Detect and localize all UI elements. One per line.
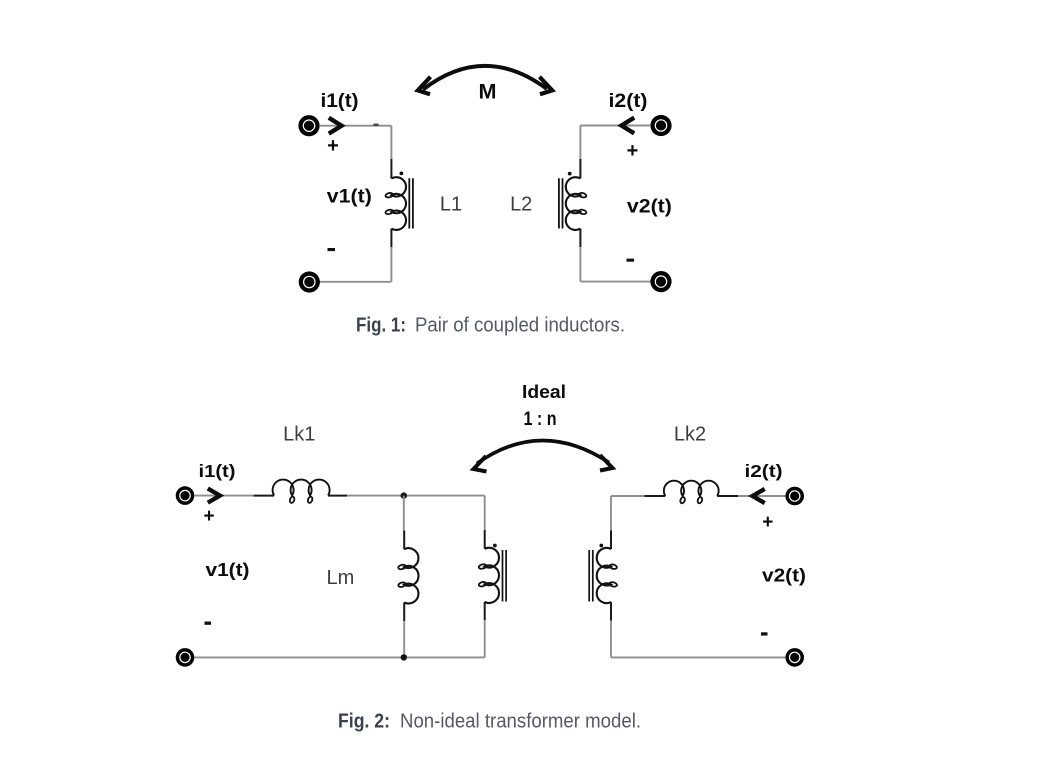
svg-text:M: M: [479, 81, 497, 104]
minus sign v2 fig2: [761, 632, 768, 635]
terminal port P7 (fig2 top-right): [785, 487, 804, 506]
inductor L2 core lines: [559, 178, 563, 228]
wire fig2 top-right: [738, 495, 785, 497]
minus sign v2: [627, 259, 635, 262]
svg-text:L2: L2: [510, 194, 532, 216]
current arrow i2: [621, 118, 634, 134]
inductor L2 coil: [566, 177, 581, 230]
wire Lk2 to corner: [611, 495, 644, 497]
inductor L2 pin leads: [579, 159, 581, 247]
svg-text:i2(t): i2(t): [745, 461, 783, 481]
junction node A: [401, 492, 407, 498]
wire secondary branch down: [610, 496, 612, 531]
svg-text:1 : n: 1 : n: [524, 409, 557, 430]
transformer T1 secondary pin leads: [610, 531, 612, 621]
inductor Lk2 pin leads: [644, 495, 738, 497]
svg-text:Non-ideal transformer model.: Non-ideal transformer model.: [400, 711, 641, 733]
svg-text:Lk1: Lk1: [283, 424, 315, 446]
inductor Lk1 coil: [273, 480, 330, 496]
svg-text:+: +: [627, 140, 639, 162]
wire bottom-left horizontal: [319, 281, 391, 283]
inductor L1 core lines: [409, 178, 413, 228]
terminal port P2 (fig1 bottom-left): [299, 271, 320, 292]
svg-text:Fig. 1:: Fig. 1:: [356, 315, 406, 337]
wire left vertical: [390, 126, 392, 159]
transformer T1 primary pin leads: [484, 530, 486, 620]
inductor Lm pin leads: [403, 531, 405, 622]
svg-text:v1(t): v1(t): [327, 187, 372, 208]
inductor Lm coil: [404, 548, 418, 603]
svg-text:i1(t): i1(t): [199, 461, 236, 481]
inductor L1 pin leads: [390, 159, 392, 247]
wire node A down to Lm: [403, 496, 405, 531]
terminal port P4 (fig1 bottom-right): [650, 271, 671, 292]
svg-text:Fig. 2:: Fig. 2:: [338, 711, 390, 733]
polarity dot L2: [568, 172, 572, 176]
svg-text:Pair of coupled inductors.: Pair of coupled inductors.: [415, 315, 625, 337]
transformer T1 secondary core lines: [589, 550, 593, 602]
svg-text:+: +: [762, 512, 773, 533]
current arrow i1: [329, 118, 342, 134]
wire fig2 bottom-right: [611, 656, 785, 658]
current arrow i2 fig2: [753, 489, 765, 503]
wire node A right then down (primary branch): [484, 496, 486, 530]
wire left vertical lower: [390, 247, 392, 282]
svg-text:Ideal: Ideal: [522, 382, 566, 402]
svg-text:v1(t): v1(t): [206, 559, 250, 580]
terminal port P5 (fig2 top-left): [176, 486, 195, 505]
wire secondary bottom: [610, 621, 612, 658]
wire primary bottom: [484, 620, 486, 657]
transformer T1 primary coil: [485, 548, 499, 603]
terminal port P8 (fig2 bottom-right): [785, 648, 804, 667]
junction node B: [401, 654, 407, 660]
inductor L1 coil: [391, 177, 406, 230]
tick artifact on wire: [374, 124, 379, 126]
polarity dot primary: [493, 544, 497, 548]
svg-text:+: +: [327, 135, 339, 157]
polarity dot L1: [400, 172, 404, 176]
svg-text:+: +: [203, 506, 214, 527]
terminal port P3 (fig1 top-right): [650, 115, 671, 136]
inductor Lk2 coil: [664, 481, 719, 496]
svg-text:i2(t): i2(t): [609, 91, 648, 112]
ideal transformer arrow (curved double arrow): [474, 440, 613, 471]
wire Lk1 to node A: [347, 495, 485, 497]
inductor Lk1 pin leads: [254, 495, 348, 497]
wire right vertical lower: [579, 247, 581, 282]
wire top-right horizontal: [580, 125, 650, 127]
transformer T1 secondary coil: [597, 548, 611, 603]
svg-text:i1(t): i1(t): [321, 91, 359, 112]
wire bottom-right horizontal: [580, 281, 650, 283]
wire fig2 top-left: [194, 495, 253, 497]
svg-text:L1: L1: [440, 194, 462, 216]
polarity dot secondary: [599, 544, 603, 548]
minus sign v1: [328, 248, 336, 251]
wire top-left horizontal: [319, 125, 391, 127]
svg-text:Lm: Lm: [327, 567, 355, 589]
mutual inductance arrow M (curved double arrow): [418, 66, 552, 94]
transformer T1 primary core lines: [503, 550, 507, 602]
svg-text:v2(t): v2(t): [762, 565, 806, 586]
current arrow i1 fig2: [208, 489, 220, 503]
minus sign v1 fig2: [205, 622, 212, 625]
terminal port P6 (fig2 bottom-left): [176, 648, 195, 667]
svg-text:Lk2: Lk2: [674, 424, 706, 446]
wire right vertical: [579, 126, 581, 160]
terminal port P1 (fig1 top-left): [298, 115, 319, 136]
svg-text:v2(t): v2(t): [627, 196, 672, 217]
wire Lm to bottom: [403, 621, 405, 657]
wire fig2 bottom-left: [194, 656, 484, 658]
